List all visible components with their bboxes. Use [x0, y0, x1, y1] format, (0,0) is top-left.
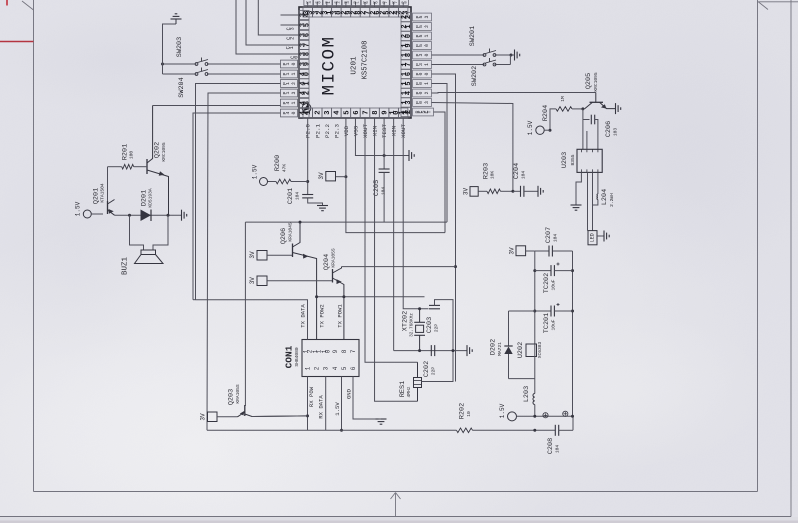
pin 36 (left) [299, 30, 309, 39]
wire [0, 516, 791, 518]
buzzer BUZ1 [130, 215, 144, 250]
node 1.5V supply R200 [260, 178, 268, 186]
svg-text:8: 8 [372, 110, 380, 114]
svg-text:KRA105S: KRA105S [331, 248, 337, 268]
wire 1.5V rail [517, 415, 573, 417]
svg-text:3: 3 [323, 366, 330, 370]
node junction rail TC202 right [571, 269, 574, 272]
node P1.2 pad label [281, 80, 298, 88]
svg-text:R201: R201 [122, 144, 130, 160]
svg-text:17: 17 [401, 62, 413, 66]
svg-text:P5.2: P5.2 [415, 25, 430, 28]
wire [757, 0, 759, 492]
wire TX DATA [196, 300, 308, 340]
pin 15 (right) [401, 79, 411, 88]
wire U203 pin1 to ground [576, 172, 581, 205]
node junction P2.0/R200 [306, 180, 309, 183]
svg-text:XT202: XT202 [402, 311, 410, 331]
node junction VDD [344, 175, 347, 178]
wire C208 up to rail [572, 416, 574, 430]
svg-text:40: 40 [299, 72, 311, 76]
node junction TEST/ground rail [383, 154, 386, 157]
svg-text:U202: U202 [517, 342, 525, 358]
op-amp U203 B355 [577, 149, 602, 172]
ground LED [597, 235, 604, 237]
svg-text:P1.0: P1.0 [282, 63, 297, 66]
wire C2 to top edge [258, 0, 299, 35]
wire [22, 1, 34, 10]
inductor L203 [534, 379, 536, 394]
svg-text:C204: C204 [513, 163, 521, 179]
svg-text:2: 2 [314, 366, 321, 370]
transistor Q204 KRA105S [332, 269, 334, 283]
svg-text:D202: D202 [490, 339, 498, 355]
switch SW204 [195, 73, 198, 76]
crystal XT202 32.768KHz [419, 309, 421, 323]
transistor Q201 KTA1504 [107, 201, 109, 214]
node 1.5V supply Q201 [83, 210, 91, 218]
svg-text:RESET: RESET [415, 111, 433, 114]
svg-text:15: 15 [401, 81, 413, 85]
wire U203 to LED left [587, 172, 589, 230]
svg-text:104: 104 [555, 445, 561, 454]
wire stub pin 31 [326, 2, 328, 7]
wire R201 to Q201 [107, 167, 109, 201]
svg-text:P4.0: P4.0 [282, 112, 297, 115]
svg-text:P2.1: P2.1 [314, 124, 321, 138]
node P0.3 pad label [413, 99, 432, 107]
node P0.0 pad label [413, 70, 432, 78]
pin 23 (top) [399, 7, 408, 17]
node 3V supply Q203 [208, 412, 218, 422]
svg-text:SHB4080: SHB4080 [294, 347, 300, 367]
svg-text:P1.3: P1.3 [282, 92, 297, 95]
transistor Q202 KRC1095 [146, 159, 148, 174]
pin 7 (bottom) [360, 108, 369, 118]
node P1.1 pad label [281, 70, 298, 78]
pin 9 (bottom) [379, 108, 388, 118]
svg-text:104: 104 [381, 187, 387, 196]
svg-text:Q202: Q202 [154, 142, 162, 158]
svg-text:C0: C0 [290, 56, 299, 59]
node P5.3 pad label [413, 13, 432, 21]
svg-text:1: 1 [305, 366, 312, 370]
wire D202 block bottom [509, 378, 535, 380]
node junction right rail 1.5V [571, 415, 574, 418]
svg-text:L204: L204 [601, 189, 609, 205]
svg-text:C3: C3 [286, 27, 295, 30]
svg-text:KRA105S: KRA105S [235, 384, 241, 404]
wire [34, 491, 758, 493]
wire Q204 collector rail to P0.0 [342, 266, 456, 268]
svg-text:44: 44 [299, 111, 311, 115]
wire TEST down [383, 118, 385, 169]
pin 13 (right) [401, 98, 411, 107]
svg-text:1.5V: 1.5V [252, 164, 259, 179]
svg-text:KRC1095: KRC1095 [161, 142, 167, 162]
pin 30 (top) [332, 7, 341, 17]
node P4.0 pad label [281, 109, 298, 117]
svg-text:MICOM: MICOM [320, 35, 340, 95]
wire [33, 0, 35, 492]
switch SW201 [483, 54, 486, 57]
transistor Q205 KRC1095 [590, 101, 604, 103]
capacitor TC202 10uF electrolytic [535, 270, 551, 272]
wire C1 to top edge [246, 0, 299, 45]
svg-text:9: 9 [332, 349, 339, 353]
pin 32 (top) [313, 7, 322, 17]
svg-text:CON1: CON1 [284, 345, 295, 368]
pin 35 (left) [299, 20, 309, 29]
svg-text:34: 34 [299, 13, 311, 17]
wire TX POW rail [317, 296, 425, 298]
svg-text:39: 39 [299, 62, 311, 66]
wire P4.0 down-left [193, 113, 281, 300]
wire stub pin 32 [316, 2, 318, 7]
wire pin35 stub (C3) [281, 24, 300, 26]
node junction TX POW2 [315, 295, 318, 298]
svg-text:L203: L203 [523, 386, 531, 402]
node junction rail TC201 left [533, 310, 536, 313]
pin 18 (right) [401, 50, 411, 59]
svg-text:BUZ1: BUZ1 [122, 257, 130, 276]
node junction C203 loop bottom [452, 349, 455, 352]
svg-text:1.5V: 1.5V [499, 403, 506, 418]
svg-text:12: 12 [401, 110, 413, 114]
pin 5 (bottom) [341, 108, 350, 118]
node red registration mark vertical [6, 0, 8, 6]
resistor R202 10 [457, 428, 473, 433]
svg-text:SW204: SW204 [178, 77, 186, 97]
pin 8 (bottom) [370, 108, 379, 118]
svg-text:3V: 3V [200, 413, 207, 421]
svg-text:8: 8 [341, 349, 348, 353]
node P5.0 pad label [413, 42, 432, 50]
svg-text:RES1: RES1 [399, 381, 407, 397]
svg-text:C203: C203 [426, 317, 434, 333]
wire P0.1 rail to Q203 [245, 221, 447, 223]
svg-text:4: 4 [334, 110, 342, 115]
svg-text:RX DATA: RX DATA [318, 395, 325, 419]
svg-text:MA721: MA721 [497, 342, 503, 356]
wire stub pin 30 [335, 2, 337, 7]
node junction SW203/SW204 [161, 63, 164, 66]
pin 40 (left) [299, 69, 309, 78]
svg-text:GND: GND [346, 388, 353, 399]
wire page bottom edge band [0, 517, 798, 523]
svg-text:3V: 3V [249, 277, 256, 285]
svg-text:P5.3: P5.3 [415, 16, 430, 19]
node junction bottom rail L203 [533, 429, 536, 432]
svg-text:C1: C1 [286, 46, 295, 49]
node P3.1 pad label [413, 61, 432, 69]
svg-text:C202: C202 [423, 361, 431, 377]
svg-text:2.2mH: 2.2mH [609, 193, 615, 207]
wire R204 to Q205 base node [572, 108, 583, 110]
node junction XT202 top [418, 307, 421, 310]
svg-text:6: 6 [353, 110, 361, 114]
wire rail left x=534.8 [534, 251, 536, 344]
wire RESET bus down [434, 112, 446, 233]
svg-text:3: 3 [324, 110, 332, 114]
node junction XT202 bottom [418, 349, 421, 352]
svg-text:5: 5 [343, 110, 351, 114]
pin 4 (bottom) [332, 108, 341, 118]
svg-text:P2.3: P2.3 [333, 124, 340, 138]
svg-text:9: 9 [382, 110, 390, 114]
node 3V supply C207 [516, 246, 526, 256]
svg-text:41: 41 [299, 81, 311, 85]
svg-text:22P: 22P [434, 324, 440, 333]
inductor L204 2.2mH [597, 172, 599, 194]
svg-text:P1.1: P1.1 [282, 73, 297, 76]
pin 27 (top) [360, 7, 369, 17]
svg-text:14: 14 [401, 91, 413, 95]
capacitor C205 104 [379, 168, 390, 170]
pin 43 (left) [299, 98, 309, 107]
svg-text:B355: B355 [570, 154, 576, 165]
pin 22 (right) [401, 12, 411, 21]
svg-text:12: 12 [303, 349, 314, 353]
node junction SW201/SW202 [510, 54, 513, 57]
node 1.5V supply R204 [536, 126, 544, 134]
wire P1.1 to SW204 [207, 73, 281, 75]
wire XTOUT down (pin11) [403, 118, 428, 309]
wire rail down to Q203 base [244, 222, 246, 406]
wire [759, 2, 769, 10]
svg-text:SW203: SW203 [176, 37, 184, 57]
svg-text:P2.2: P2.2 [324, 124, 331, 138]
pin 38 (left) [299, 49, 309, 58]
wire VSS down to ground rail [355, 118, 409, 156]
pin 25 (top) [379, 7, 388, 17]
wire RES1 tap to C202 rail [422, 351, 454, 382]
capacitor C207 104 [535, 250, 549, 252]
svg-text:C206: C206 [605, 121, 613, 137]
wire VDD to 3V box [336, 176, 346, 178]
wire U203 pin stub up [586, 131, 588, 149]
diode D201 KD5193A [141, 210, 152, 222]
wire U203 to LED right [592, 172, 594, 230]
svg-text:22: 22 [401, 15, 413, 19]
svg-text:TC202: TC202 [543, 273, 551, 293]
pin 37 (left) [299, 40, 309, 49]
node junction R204/1.5V [549, 129, 552, 132]
svg-text:20: 20 [401, 34, 413, 38]
svg-text:104: 104 [553, 234, 559, 243]
wire emitter rail y215 [115, 214, 182, 216]
svg-text:XC6383: XC6383 [537, 341, 543, 358]
wire stub pin 33 [307, 2, 309, 7]
node 1.5V supply bottom [508, 412, 517, 421]
svg-text:3V: 3V [463, 188, 470, 196]
transistor Q203 KRA105S [217, 416, 238, 418]
svg-text:TX POW2: TX POW2 [319, 304, 326, 328]
svg-text:1.5V: 1.5V [527, 120, 534, 135]
wire SW202 to junction [495, 64, 511, 66]
pin 2 (bottom) [313, 108, 322, 118]
svg-text:Q201: Q201 [93, 188, 101, 204]
wire P4.1 to Q202 collector [153, 105, 281, 107]
pin 21 (right) [401, 22, 411, 31]
svg-text:18: 18 [401, 53, 413, 57]
svg-text:KD5193A: KD5193A [148, 188, 154, 208]
svg-text:D201: D201 [141, 190, 149, 206]
svg-text:11: 11 [312, 349, 323, 353]
node junction rail TC201 right [571, 310, 574, 313]
wire stub pin 26 [374, 2, 376, 7]
pin 24 (top) [389, 7, 398, 17]
ground VSS rail [408, 150, 410, 161]
node P3.0 pad label [413, 51, 432, 59]
node P5.1 pad label [413, 32, 432, 40]
resistor R204 1M [556, 107, 572, 112]
wire P0.3 to R203/C204 node [432, 103, 513, 192]
svg-text:2: 2 [315, 110, 323, 114]
svg-text:10K: 10K [490, 171, 496, 180]
svg-text:TC201: TC201 [543, 313, 551, 333]
svg-text:10uF: 10uF [551, 279, 557, 290]
node 3V supply VDD [326, 172, 336, 181]
wire P0.0 bus [432, 74, 456, 382]
svg-text:Q205: Q205 [585, 73, 593, 89]
svg-text:R204: R204 [542, 105, 550, 121]
node junction L203/1.5V [533, 415, 536, 418]
svg-text:Q206: Q206 [280, 228, 288, 244]
wire XIN down [375, 118, 418, 401]
svg-text:KRC1095: KRC1095 [593, 72, 599, 92]
wire stub pin 23 [402, 2, 404, 7]
svg-text:16: 16 [401, 72, 413, 76]
node centre mark arrow [395, 493, 397, 517]
svg-text:100: 100 [129, 151, 135, 160]
node 3V supply R203 [470, 187, 478, 197]
svg-text:104: 104 [295, 192, 301, 201]
svg-text:7: 7 [350, 349, 357, 353]
node P4.1 pad label [281, 99, 298, 107]
LED LED1 [588, 231, 597, 245]
svg-text:P0.0: P0.0 [415, 73, 430, 76]
svg-text:R200: R200 [274, 155, 282, 171]
wire 3V to Q204 base [267, 280, 333, 282]
wire stub pin 27 [364, 2, 366, 7]
svg-text:R202: R202 [459, 403, 467, 419]
svg-text:KS57C2108: KS57C2108 [362, 41, 370, 80]
wire subclock bottom rail [394, 350, 467, 352]
svg-text:4: 4 [332, 366, 339, 370]
svg-text:C201: C201 [287, 188, 295, 204]
svg-text:104: 104 [521, 171, 527, 180]
pin 33 (top) [303, 7, 312, 17]
wire P0.1 bus [432, 84, 448, 223]
capacitor C204 104 [513, 190, 521, 192]
node RESET pad label [413, 108, 434, 116]
svg-text:4MHz: 4MHz [406, 386, 412, 397]
wire Q205 junction down to U203 [582, 109, 584, 149]
wire GND down [353, 377, 379, 420]
pin 28 (top) [351, 7, 360, 17]
svg-text:3V: 3V [249, 251, 256, 259]
svg-text:P5.0: P5.0 [415, 44, 430, 47]
pin 34 (left) [299, 10, 309, 19]
pin 10 (bottom) [389, 108, 398, 118]
node red registration mark horizontal [0, 41, 34, 43]
ground C201 [317, 205, 328, 207]
svg-text:35: 35 [299, 23, 311, 27]
pin 1 (bottom) [303, 108, 312, 118]
wire RX DATA down [325, 377, 327, 431]
svg-text:6: 6 [350, 366, 357, 370]
node 3V supply Q204 [257, 276, 267, 286]
svg-text:R203: R203 [483, 163, 491, 179]
ground U203 [571, 204, 582, 206]
svg-text:43: 43 [299, 101, 311, 105]
capacitor TC201 10uF electrolytic [509, 310, 552, 312]
pin 16 (right) [401, 69, 411, 78]
svg-text:TX POW1: TX POW1 [337, 304, 344, 328]
node test point BT+ 2 [563, 411, 568, 416]
diode D202 MA721 [508, 311, 510, 346]
node P0.1 pad label [413, 80, 432, 88]
svg-text:P4.1: P4.1 [282, 102, 297, 105]
transistor Q206 KRA1045 [292, 244, 294, 258]
svg-text:13: 13 [401, 100, 413, 104]
wire C0 to top edge [236, 0, 299, 54]
svg-text:U201: U201 [351, 56, 359, 75]
svg-text:P3.1: P3.1 [415, 63, 430, 66]
svg-text:19: 19 [401, 43, 413, 47]
capacitor C206 103 [583, 119, 590, 121]
pin 31 (top) [322, 7, 331, 17]
wire P3.0 to SW201 [432, 54, 485, 56]
wire SW204 to junction [163, 73, 197, 75]
op-amp U201 MICOM KS57C2108 body [299, 7, 411, 118]
pin 17 (right) [401, 60, 411, 69]
ground Q205 [615, 103, 617, 114]
svg-text:TX DATA: TX DATA [300, 304, 307, 328]
node junction rail TC202 left [533, 269, 536, 272]
svg-text:C207: C207 [545, 227, 553, 243]
svg-text:C2: C2 [286, 37, 295, 40]
resistor R203 10K [478, 190, 487, 192]
capacitor C201 104 [302, 194, 313, 196]
node junction BUZ1 left [128, 214, 131, 217]
svg-text:Q204: Q204 [323, 254, 331, 270]
switch SW202 [483, 63, 486, 66]
node test point BT+ 1 [543, 413, 548, 418]
pin 20 (right) [401, 31, 411, 40]
wire [790, 0, 792, 517]
wire P1.2 down-left [196, 84, 281, 300]
svg-text:10: 10 [466, 411, 472, 417]
node junction RX POW / Q203 [306, 414, 309, 417]
svg-text:32.768KHz: 32.768KHz [409, 313, 414, 337]
node junction P0.0/Q204 rail [454, 265, 457, 268]
wire [758, 1, 798, 3]
node junction Q205 base [581, 107, 584, 110]
wire XOUT down [365, 118, 418, 362]
node junction CON1 1.5V [340, 429, 343, 432]
pin 11 (bottom) [399, 108, 408, 118]
op-amp U201 pin1 marker [302, 104, 311, 113]
node junction R203/C204 [511, 190, 514, 193]
wire P2.0 down [307, 118, 309, 195]
svg-text:C208: C208 [547, 438, 555, 454]
wire rail right x=572.5 [572, 251, 574, 416]
wire bottom 1.5V rail [207, 429, 457, 431]
svg-text:7: 7 [362, 110, 370, 114]
ground subclock rail [466, 345, 468, 356]
